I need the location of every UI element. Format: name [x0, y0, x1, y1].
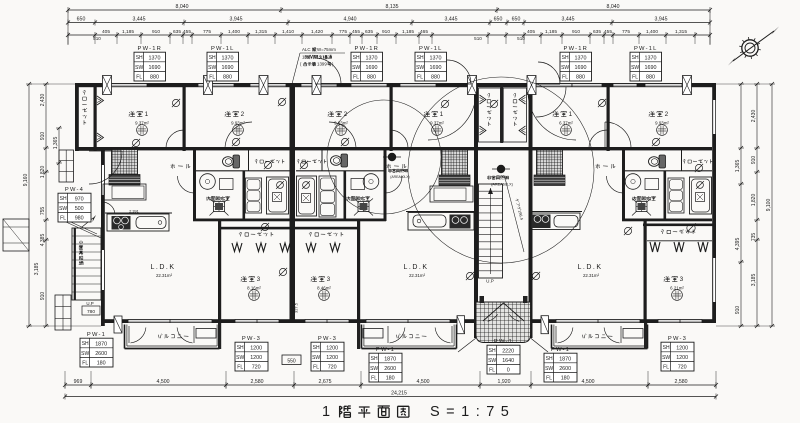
- svg-text:2: 2: [665, 111, 670, 118]
- svg-text:SW: SW: [561, 65, 569, 71]
- svg-text:1,315: 1,315: [255, 29, 267, 35]
- svg-text:880: 880: [576, 75, 585, 81]
- svg-text:9,160: 9,160: [23, 174, 29, 187]
- table PW-1 bottom #6: [544, 347, 577, 382]
- svg-text:3: 3: [257, 276, 262, 283]
- ALC wall note: [292, 47, 345, 84]
- svg-text:2,675: 2,675: [319, 379, 332, 385]
- svg-text:FL: FL: [546, 375, 552, 381]
- closet A hanger brackets: [97, 96, 104, 142]
- svg-text:SW: SW: [488, 358, 496, 364]
- party wall A|B x290: [290, 83, 296, 323]
- door washroom C: [607, 176, 624, 193]
- porch side posts: [457, 316, 549, 334]
- wall under top bedrooms y147: [79, 147, 712, 150]
- svg-text:1: 1: [322, 404, 330, 420]
- table PW-3 bottom right: [661, 336, 694, 371]
- svg-text:1870: 1870: [384, 356, 396, 362]
- svg-text:1690: 1690: [366, 65, 378, 71]
- svg-text:FL: FL: [60, 215, 66, 221]
- svg-text:780: 780: [87, 309, 95, 315]
- svg-text:FL: FL: [353, 74, 359, 80]
- svg-text:1200: 1200: [676, 355, 688, 361]
- unit A internal stair (hatched): [109, 150, 140, 186]
- svg-text:1200: 1200: [326, 355, 338, 361]
- svg-text:1640: 1640: [502, 358, 514, 364]
- svg-text:3,445: 3,445: [562, 17, 575, 23]
- svg-text:1,365: 1,365: [735, 160, 741, 173]
- svg-text:SW: SW: [135, 65, 143, 71]
- svg-text:FL: FL: [632, 74, 638, 80]
- svg-text:1870: 1870: [95, 341, 107, 347]
- svg-text:8,040: 8,040: [607, 4, 620, 10]
- washroom unit C fixtures: [625, 174, 658, 216]
- svg-text:1690: 1690: [222, 65, 234, 71]
- svg-text:1,400: 1,400: [646, 29, 658, 35]
- wall closet strip B bottom: [296, 170, 384, 172]
- door bedroom2C: [605, 122, 631, 148]
- core wall left x474: [474, 83, 478, 338]
- svg-text:1200: 1200: [676, 345, 688, 351]
- dimension bottom tier: 969 4,500 2,580 2,675 4,500 1,920 4,500 2,580: [63, 371, 718, 389]
- svg-text:FL: FL: [209, 74, 215, 80]
- room bedroom1 unit B: [424, 111, 445, 135]
- svg-text:735: 735: [751, 233, 757, 242]
- svg-text:1690: 1690: [575, 65, 587, 71]
- toilet unit C: [649, 155, 666, 168]
- svg-text:720: 720: [678, 365, 687, 371]
- label hall C: [596, 164, 616, 169]
- meter box grid left: [59, 150, 74, 182]
- svg-text:SH: SH: [489, 348, 496, 354]
- door bedroom2B: [329, 122, 356, 149]
- door bedroom1A: [166, 130, 184, 148]
- entry door swing unit B inside: [428, 92, 476, 140]
- svg-text:SW: SW: [236, 355, 244, 361]
- svg-text:SH: SH: [60, 196, 67, 202]
- table PW-3 bottom #2: [235, 336, 268, 371]
- entry door unit C outside: [538, 62, 560, 84]
- room LDK unit C: [577, 264, 602, 278]
- room bedroom2 unit C: [649, 111, 670, 135]
- svg-text:SH: SH: [417, 55, 424, 61]
- svg-text:4,500: 4,500: [157, 379, 170, 385]
- svg-text:910: 910: [572, 29, 580, 35]
- svg-text:SH: SH: [371, 356, 378, 362]
- svg-text:4,940: 4,940: [344, 17, 357, 23]
- svg-text:510: 510: [517, 36, 525, 41]
- svg-text:910: 910: [735, 306, 741, 315]
- svg-text:510: 510: [474, 36, 482, 41]
- svg-text:465: 465: [420, 29, 428, 35]
- label washroom B: [346, 196, 370, 200]
- bath unit C tub and shelf: [668, 177, 712, 214]
- wall bathA|washA x242: [243, 171, 246, 221]
- compass north symbol: [728, 27, 779, 66]
- label closet A vertical: [82, 90, 87, 124]
- unit B internal stair (hatched): [439, 150, 470, 186]
- svg-text:775: 775: [339, 29, 347, 35]
- label washroom C: [632, 196, 656, 200]
- svg-text:L.D.K: L.D.K: [577, 264, 602, 271]
- bath unit A tub and shelf: [246, 177, 289, 214]
- washroom unit B fixtures: [351, 174, 379, 216]
- svg-text:510: 510: [93, 36, 101, 41]
- svg-text:910: 910: [40, 292, 46, 301]
- svg-text:4,500: 4,500: [582, 379, 595, 385]
- svg-text:405: 405: [527, 29, 535, 35]
- label closet bed3A: [239, 232, 273, 236]
- svg-text:S=1:75: S=1:75: [430, 404, 515, 420]
- svg-text:180: 180: [97, 361, 106, 367]
- svg-text:PW-1R: PW-1R: [355, 46, 380, 52]
- svg-text:SH: SH: [546, 356, 553, 362]
- table PW-4 left: [58, 187, 91, 222]
- wall washroomA left x193: [193, 150, 196, 221]
- svg-text:SH: SH: [663, 345, 670, 351]
- svg-text:SH: SH: [562, 55, 569, 61]
- svg-text:327.5: 327.5: [294, 302, 299, 313]
- wall bed3B|LDKB x357: [357, 221, 360, 323]
- wall closet strip A bottom: [196, 170, 290, 172]
- svg-text:3,185: 3,185: [751, 274, 757, 287]
- svg-text:SW: SW: [81, 351, 89, 357]
- svg-text:9,100: 9,100: [766, 199, 772, 212]
- svg-text:3,945: 3,945: [230, 17, 243, 23]
- svg-text:180: 180: [386, 376, 395, 382]
- svg-text:FL: FL: [663, 364, 669, 370]
- svg-text:1370: 1370: [149, 55, 161, 61]
- svg-text:455: 455: [352, 29, 360, 35]
- svg-text:1370: 1370: [366, 55, 378, 61]
- balcony unit A: [114, 316, 221, 349]
- svg-text:L.D.K: L.D.K: [150, 264, 175, 271]
- wall closet A right x93: [94, 83, 97, 151]
- external stair left with attic storage label: [62, 215, 101, 315]
- svg-text:650: 650: [494, 17, 503, 23]
- svg-text:22.31m²: 22.31m²: [409, 273, 426, 278]
- label balcony A: [158, 334, 188, 339]
- svg-text:775: 775: [203, 29, 211, 35]
- dimension left chains: [23, 82, 101, 328]
- window mullion posts above top wall (X-braced): [103, 76, 692, 95]
- wall exterior left upper (closet block): [75, 83, 79, 151]
- room LDK unit B: [403, 264, 428, 278]
- svg-text:8,040: 8,040: [176, 4, 189, 10]
- svg-text:SW: SW: [352, 65, 360, 71]
- svg-text:1,420: 1,420: [311, 29, 323, 35]
- svg-text:3: 3: [680, 276, 685, 283]
- svg-text:1,185: 1,185: [122, 29, 134, 35]
- door bedroom2A: [225, 122, 252, 149]
- wall washC left x622: [622, 150, 625, 221]
- svg-text:1,400: 1,400: [228, 29, 240, 35]
- svg-text:3,445: 3,445: [445, 17, 458, 23]
- svg-text:1: 1: [569, 111, 574, 118]
- svg-text:1,920: 1,920: [498, 379, 511, 385]
- svg-text:FL: FL: [417, 74, 423, 80]
- svg-text:2,430: 2,430: [751, 110, 757, 123]
- window symbols (circle-slash): [132, 98, 703, 280]
- svg-text:650: 650: [512, 17, 521, 23]
- balcony unit B: [357, 323, 457, 349]
- entry door swing unit C inside: [528, 92, 576, 140]
- svg-text:SH: SH: [353, 55, 360, 61]
- svg-text:SW: SW: [631, 65, 639, 71]
- dimension tier2: [66, 17, 712, 26]
- room bedroom1 unit A: [129, 111, 150, 135]
- door washroom B: [385, 176, 402, 193]
- svg-text:970: 970: [75, 196, 84, 202]
- svg-text:FL: FL: [313, 364, 319, 370]
- door washroom A: [178, 176, 195, 193]
- entry door unit A outside: [315, 58, 341, 84]
- svg-text:SW: SW: [59, 206, 67, 212]
- wall exterior left lower: [101, 147, 105, 326]
- room bedroom2 unit B: [328, 111, 349, 135]
- table PW-1L top x415: [415, 46, 447, 81]
- svg-text:635: 635: [365, 29, 373, 35]
- svg-text:2600: 2600: [95, 351, 107, 357]
- door bedroom1C: [589, 130, 607, 148]
- svg-text:1,315: 1,315: [675, 29, 687, 35]
- svg-text:FL: FL: [237, 364, 243, 370]
- svg-text:2,430: 2,430: [40, 94, 46, 107]
- room bedroom1 unit C: [553, 111, 574, 135]
- closet hangers bed3B: [306, 243, 340, 252]
- windows top wall: [107, 83, 682, 87]
- closet hangers bed3C: [650, 242, 708, 252]
- dimension right chains: [716, 82, 775, 328]
- svg-text:SW: SW: [208, 65, 216, 71]
- svg-text:180: 180: [561, 376, 570, 382]
- room LDK unit A: [150, 264, 175, 278]
- toilet unit A: [223, 155, 240, 168]
- vanity unit A: [103, 184, 146, 200]
- wall LDKA|bed3A x218: [218, 221, 221, 323]
- dimension tier3: [66, 29, 712, 44]
- emergency light unit B hall with coverage circle: [327, 100, 441, 214]
- room bedroom3 unit B: [311, 276, 332, 300]
- svg-text:SH: SH: [237, 345, 244, 351]
- svg-text:500: 500: [75, 206, 84, 212]
- table PW-1R top x351: [351, 46, 383, 81]
- svg-text:22.31m²: 22.31m²: [156, 273, 173, 278]
- svg-text:550: 550: [287, 358, 296, 364]
- door hall A to LDK: [89, 151, 122, 184]
- table PW-1R top x560: [560, 46, 592, 81]
- svg-text:880: 880: [646, 75, 655, 81]
- label hall A: [171, 164, 191, 169]
- svg-text:3,445: 3,445: [133, 17, 146, 23]
- wall exterior top: [75, 83, 716, 87]
- table PW-1R top x134: [134, 46, 166, 81]
- svg-text:3,185: 3,185: [34, 263, 40, 276]
- svg-text:PW-3: PW-3: [668, 336, 687, 342]
- balcony unit C: [552, 323, 648, 349]
- svg-text:3,945: 3,945: [655, 17, 668, 23]
- svg-text:910: 910: [751, 156, 757, 165]
- bath unit B tub and shelf: [297, 176, 337, 217]
- svg-text:W=75mm: W=75mm: [317, 47, 336, 52]
- svg-text:635: 635: [593, 29, 601, 35]
- wall step between left walls: [75, 147, 105, 151]
- door bedroom1C from top wall: [536, 87, 566, 117]
- svg-text:SH: SH: [313, 345, 320, 351]
- svg-text:PW-3: PW-3: [242, 336, 261, 342]
- svg-text:2,580: 2,580: [675, 379, 688, 385]
- svg-text:1,410: 1,410: [282, 29, 294, 35]
- wall kitchen top unit C: [532, 211, 582, 213]
- wall bathB|washB x343: [344, 171, 347, 221]
- wall exterior right: [712, 83, 716, 323]
- svg-text:PW-1R: PW-1R: [138, 46, 163, 52]
- room bedroom3 unit A: [241, 276, 262, 300]
- washroom unit A fixtures: [200, 174, 233, 216]
- svg-text:4,500: 4,500: [417, 379, 430, 385]
- svg-text:2: 2: [344, 111, 349, 118]
- svg-text:880: 880: [431, 75, 440, 81]
- label closet bed3C: [661, 223, 696, 234]
- vanity unit B: [430, 186, 473, 202]
- svg-text:PW-1L: PW-1L: [211, 46, 235, 52]
- label washroom A: [206, 196, 230, 200]
- svg-text:SW: SW: [662, 355, 670, 361]
- svg-text:8,135: 8,135: [386, 4, 399, 10]
- svg-text:PW-3: PW-3: [318, 336, 337, 342]
- svg-text:1370: 1370: [645, 55, 657, 61]
- table PW-1 bottom #4: [369, 347, 402, 382]
- wall bath band bottom unit C: [622, 219, 712, 222]
- wall closet top over bedroom3 A: [218, 227, 296, 230]
- svg-text:755: 755: [40, 207, 46, 216]
- kitchen unit C counter: [530, 213, 580, 230]
- svg-text:1,820: 1,820: [40, 166, 46, 179]
- table PW-1L top x630: [630, 46, 662, 81]
- svg-text:910: 910: [40, 132, 46, 141]
- svg-text:1690: 1690: [645, 65, 657, 71]
- unit C internal stair (hatched): [534, 150, 565, 186]
- label closet strip B: [297, 159, 326, 163]
- core closet right: [503, 88, 526, 142]
- porch double door leaves: [480, 296, 528, 321]
- label hall B: [387, 164, 407, 169]
- wall washB right x383: [384, 150, 387, 221]
- svg-text:PW-1L: PW-1L: [419, 46, 443, 52]
- small box far bottom-left: [3, 219, 29, 251]
- svg-text:1870: 1870: [559, 356, 571, 362]
- svg-text:(AREA60LX): (AREA60LX): [390, 175, 409, 179]
- svg-text:1399: 1399: [317, 62, 327, 67]
- entry door unit B outside: [447, 60, 471, 84]
- entrance porch mesh slab: [458, 302, 548, 352]
- table PW-1 bottom left: [80, 332, 113, 367]
- svg-text:PW-1: PW-1: [551, 347, 570, 353]
- svg-text:405: 405: [102, 29, 110, 35]
- core wall right x528: [529, 83, 533, 338]
- title 1F floor plan S=1:75: [322, 404, 515, 420]
- svg-text:SW: SW: [545, 366, 553, 372]
- svg-text:SH: SH: [82, 341, 89, 347]
- meter grid lower-left: [55, 295, 71, 330]
- wall bedroom2B|1B x389: [390, 83, 393, 151]
- svg-text:1690: 1690: [430, 65, 442, 71]
- svg-text:1200: 1200: [250, 355, 262, 361]
- windows left wall: [101, 165, 104, 290]
- svg-text:910: 910: [152, 29, 160, 35]
- svg-text:980: 980: [75, 216, 84, 222]
- windows right wall: [713, 100, 716, 302]
- svg-text:2600: 2600: [559, 366, 571, 372]
- box 550: [282, 355, 301, 365]
- wall LDKC|bed3C x643: [644, 221, 647, 323]
- core stairs: [479, 184, 503, 284]
- svg-text:880: 880: [223, 75, 232, 81]
- svg-text:4,385: 4,385: [40, 234, 46, 247]
- svg-text:FL: FL: [82, 360, 88, 366]
- wall bath band bottom unit B: [296, 219, 386, 222]
- emergency light core with coverage circle: [408, 77, 594, 263]
- door LDK A lower: [102, 202, 115, 213]
- svg-text:SW: SW: [370, 366, 378, 372]
- room bedroom3 unit C: [664, 276, 685, 300]
- svg-text:PW-4: PW-4: [65, 187, 84, 193]
- small dim 327.5: [294, 302, 299, 313]
- wall kitchen top unit B: [406, 211, 474, 213]
- svg-text:2,580: 2,580: [251, 379, 264, 385]
- svg-text:FL: FL: [562, 74, 568, 80]
- svg-text:1200: 1200: [250, 345, 262, 351]
- table PW-1 bottom center: [487, 339, 520, 374]
- svg-text:U.P: U.P: [486, 279, 494, 284]
- table PW-1L top x207: [207, 46, 239, 81]
- wall bathC|washC x663: [664, 171, 667, 221]
- svg-text:2600: 2600: [384, 366, 396, 372]
- svg-text:650: 650: [77, 17, 86, 23]
- svg-text:24,215: 24,215: [391, 391, 407, 397]
- svg-text:1370: 1370: [222, 55, 234, 61]
- svg-text:1: 1: [440, 111, 445, 118]
- svg-text:PW-1: PW-1: [376, 347, 395, 353]
- svg-text:PW-1: PW-1: [494, 339, 513, 345]
- svg-text:635: 635: [173, 29, 181, 35]
- svg-text:3: 3: [327, 276, 332, 283]
- svg-text:SH: SH: [632, 55, 639, 61]
- svg-text:22.31m²: 22.31m²: [583, 273, 600, 278]
- svg-text:FL: FL: [136, 74, 142, 80]
- svg-text:2: 2: [241, 111, 246, 118]
- svg-text:1: 1: [302, 55, 305, 60]
- svg-text:SW: SW: [312, 355, 320, 361]
- kitchen unit B counter: [408, 213, 474, 231]
- svg-text:1,820: 1,820: [751, 194, 757, 207]
- svg-text:1200: 1200: [326, 345, 338, 351]
- wall closet top over bedroom3 C: [643, 224, 716, 227]
- svg-text:FL: FL: [371, 375, 377, 381]
- svg-text:880: 880: [150, 75, 159, 81]
- wall closet strip C bottom: [625, 170, 712, 172]
- svg-text:L.D.K: L.D.K: [403, 264, 428, 271]
- svg-text:SW: SW: [416, 65, 424, 71]
- closet hangers bed3A: [232, 243, 290, 252]
- dimension tier1 top: 8,040 / 8,135 / 8,040: [66, 4, 712, 45]
- svg-text:880: 880: [367, 75, 376, 81]
- kitchen unit A counter: [107, 210, 169, 232]
- wall exterior bottom: [101, 319, 716, 323]
- wall kitchen top unit A: [105, 212, 172, 214]
- dimension bottom total: 24,215: [63, 391, 718, 400]
- svg-text:0: 0: [507, 368, 510, 374]
